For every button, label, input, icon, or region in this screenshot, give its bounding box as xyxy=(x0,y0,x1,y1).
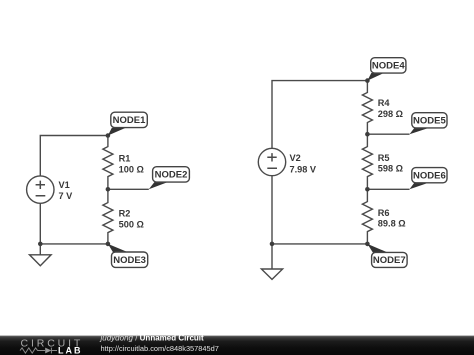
svg-text:R4: R4 xyxy=(378,98,391,108)
svg-text:LAB: LAB xyxy=(58,346,81,355)
svg-text:NODE7: NODE7 xyxy=(373,255,406,266)
svg-text:NODE2: NODE2 xyxy=(155,170,188,181)
svg-text:http://circuitlab.com/c848k357: http://circuitlab.com/c848k357845d7 xyxy=(101,344,219,353)
svg-text:R1: R1 xyxy=(119,154,131,164)
svg-text:V2: V2 xyxy=(290,153,301,163)
svg-text:7.98 V: 7.98 V xyxy=(290,165,317,175)
svg-text:NODE5: NODE5 xyxy=(413,116,446,127)
svg-text:598 Ω: 598 Ω xyxy=(378,164,403,174)
svg-text:R5: R5 xyxy=(378,153,390,163)
svg-text:298 Ω: 298 Ω xyxy=(378,109,403,119)
svg-text:V1: V1 xyxy=(59,180,70,190)
svg-text:NODE4: NODE4 xyxy=(372,61,405,72)
svg-text:NODE3: NODE3 xyxy=(113,255,146,266)
svg-text:500 Ω: 500 Ω xyxy=(119,219,144,229)
svg-text:R2: R2 xyxy=(119,209,131,219)
svg-text:7 V: 7 V xyxy=(59,191,74,201)
svg-text:judydong / Unnamed Circuit: judydong / Unnamed Circuit xyxy=(100,334,205,343)
svg-text:R6: R6 xyxy=(378,208,390,218)
svg-text:89.8 Ω: 89.8 Ω xyxy=(378,219,406,229)
svg-text:100 Ω: 100 Ω xyxy=(119,164,144,174)
svg-text:NODE1: NODE1 xyxy=(113,115,146,126)
svg-text:NODE6: NODE6 xyxy=(413,171,446,182)
